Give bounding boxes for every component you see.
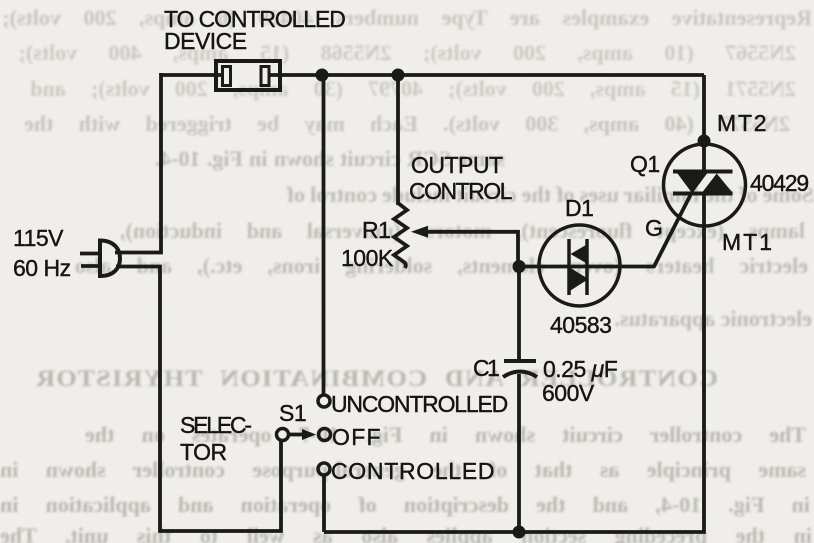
svg-text:40583: 40583 xyxy=(550,312,611,338)
svg-text:SELEC-: SELEC- xyxy=(180,412,251,438)
resistor R1 100K (potentiometer) xyxy=(394,203,407,268)
node: top wire junction to uncontrolled line xyxy=(316,69,329,82)
svg-text:600V: 600V xyxy=(542,380,595,406)
svg-text:CONTROL: CONTROL xyxy=(409,178,513,204)
node: MT2 junction dot xyxy=(698,135,711,148)
wire left bus upper xyxy=(115,73,161,253)
svg-text:TOR: TOR xyxy=(180,439,227,465)
wire top: receptacle to right bus xyxy=(268,73,704,77)
svg-text:OFF: OFF xyxy=(332,424,382,450)
plug prong bottom xyxy=(81,264,101,268)
wire left bus lower: plug to bottom rail xyxy=(116,267,281,532)
node: wiper/diac/capacitor junction xyxy=(513,260,526,273)
wire: R1 top lead xyxy=(396,75,400,205)
svg-text:C1: C1 xyxy=(473,355,499,381)
svg-text:100K: 100K xyxy=(341,245,394,271)
terminal: CONTROLLED xyxy=(318,463,330,475)
svg-text:60 Hz: 60 Hz xyxy=(13,255,71,281)
svg-text:G: G xyxy=(645,215,662,241)
wire: junction to diac xyxy=(519,265,540,269)
capacitor C1 bottom lead xyxy=(517,374,521,532)
terminal: OFF xyxy=(319,429,331,441)
wire: controlled terminal to bottom rail xyxy=(322,475,326,532)
svg-text:D1: D1 xyxy=(565,195,593,221)
node: top wire junction to R1 xyxy=(392,69,405,82)
svg-text:MT2: MT2 xyxy=(717,110,768,136)
svg-text:MT1: MT1 xyxy=(722,229,774,255)
switch S1 common terminal xyxy=(277,429,289,441)
plug prong top xyxy=(80,252,101,256)
svg-text:40429: 40429 xyxy=(750,170,808,196)
svg-text:Q1: Q1 xyxy=(630,151,660,177)
triac Q1 40429 xyxy=(664,144,746,226)
capacitor C1 top lead xyxy=(517,267,521,362)
svg-text:UNCONTROLLED: UNCONTROLLED xyxy=(331,391,508,417)
wiper arrow of R1 xyxy=(411,226,518,267)
svg-text:R1: R1 xyxy=(362,217,390,243)
label R1 100K xyxy=(341,217,394,271)
receptacle J1 (controlled device outlet) xyxy=(216,61,280,90)
switch S1 arm arrow xyxy=(289,429,316,440)
label TO CONTROLLED DEVICE xyxy=(164,6,345,54)
svg-text:S1: S1 xyxy=(279,400,306,426)
label OUTPUT CONTROL xyxy=(409,152,513,204)
svg-text:OUTPUT: OUTPUT xyxy=(411,152,503,178)
diac D1 40583 xyxy=(539,225,620,306)
node: bottom rail junction xyxy=(513,526,526,539)
label 115V 60Hz xyxy=(13,225,71,281)
svg-text:DEVICE: DEVICE xyxy=(164,28,247,54)
wire: right bus bottom (MT1) to rail xyxy=(324,226,704,532)
terminal: UNCONTROLLED xyxy=(318,395,330,407)
svg-text:115V: 115V xyxy=(13,225,64,251)
label SELEC- TOR xyxy=(180,412,251,465)
wire: diac to gate diagonal xyxy=(620,192,692,267)
plug P1 body xyxy=(100,241,120,277)
capacitor C1 0.25uF 600V xyxy=(503,361,537,377)
wire top-left: receptacle to left bus xyxy=(161,73,224,77)
svg-text:CONTROLLED: CONTROLLED xyxy=(331,458,495,484)
wire: uncontrolled terminal drop xyxy=(322,75,326,395)
wire: right bus top (MT2) xyxy=(702,75,706,144)
svg-text:0.25 μF: 0.25 μF xyxy=(543,356,618,382)
